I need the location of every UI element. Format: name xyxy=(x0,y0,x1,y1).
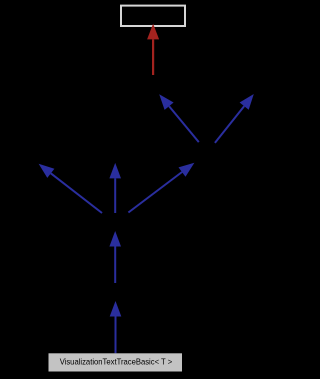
svg-text:VisualizationTextTraceBasic< T: VisualizationTextTraceBasic< T > xyxy=(60,357,173,367)
